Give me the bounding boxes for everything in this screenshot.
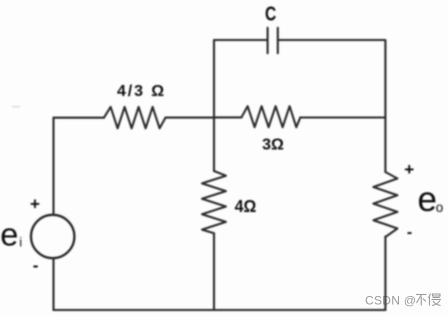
svg-text:e: e	[0, 217, 18, 253]
wire: between 4/3 ohm and node	[166, 117, 215, 119]
resistor 4/3 ohm zigzag	[104, 107, 166, 128]
svg-text:+: +	[404, 160, 414, 179]
svg-text:o: o	[436, 200, 444, 215]
wire: middle vertical upper	[213, 117, 215, 171]
svg-text:-: -	[33, 256, 39, 275]
svg-text:+: +	[30, 195, 40, 214]
wire: bottom	[54, 309, 386, 311]
resistor 4 ohm zigzag	[202, 171, 226, 233]
source e_i circle	[31, 215, 74, 258]
svg-text:i: i	[19, 235, 22, 250]
resistor 3 ohm zigzag	[242, 106, 301, 127]
wire: upper left vertical	[52, 118, 54, 215]
wire: middle vertical lower	[213, 233, 215, 310]
svg-text:-: -	[407, 224, 412, 241]
wire: lower right vertical	[384, 237, 386, 311]
wire: left horizontal lead	[54, 117, 105, 119]
svg-text:C: C	[265, 3, 276, 26]
svg-text:4/3 Ω: 4/3 Ω	[117, 83, 166, 100]
capacitor C plates	[267, 28, 269, 53]
glyph 不	[416, 295, 427, 306]
svg-text:3Ω: 3Ω	[262, 137, 284, 154]
wire: right capacitor lead, top-right corner, upper right vertical	[278, 40, 386, 172]
svg-text:CSDN @: CSDN @	[365, 294, 416, 308]
wire: top-left corner and left capacitor lead	[214, 40, 268, 118]
resistor Ro (e_o branch)	[373, 172, 397, 237]
glyph 侵	[429, 294, 442, 306]
svg-text:e: e	[418, 180, 437, 219]
wire: node to 3 ohm	[214, 116, 242, 118]
svg-text:4Ω: 4Ω	[235, 197, 257, 217]
wire: 3 ohm to right vertical	[300, 116, 385, 118]
watermark CSDN	[365, 294, 441, 308]
faint artifact dash	[12, 106, 20, 109]
wire: lower left vertical	[52, 258, 54, 310]
